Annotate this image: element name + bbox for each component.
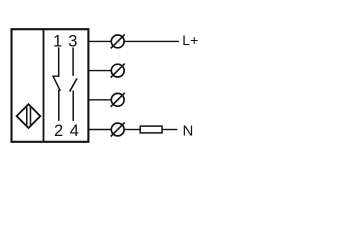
svg-text:2: 2 [54, 122, 63, 140]
svg-text:L+: L+ [182, 32, 198, 48]
svg-text:N: N [183, 123, 194, 140]
svg-text:4: 4 [70, 122, 79, 140]
svg-text:1: 1 [53, 32, 62, 50]
svg-text:3: 3 [68, 32, 77, 50]
